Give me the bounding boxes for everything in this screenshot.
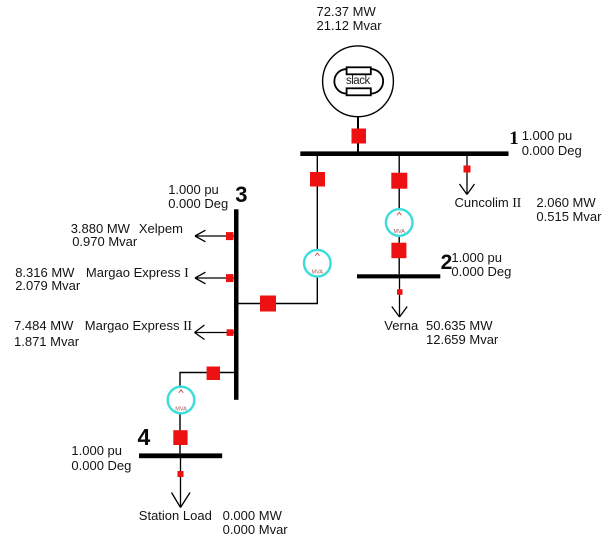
- load name Xelpem: [139, 222, 183, 236]
- load arrow Xelpem: [195, 230, 234, 242]
- load value Margao Express I MW: [15, 266, 74, 280]
- bus 4 number label: [138, 426, 151, 449]
- svg-text:MVA: MVA: [312, 270, 324, 276]
- load name Verna: [384, 319, 418, 333]
- breaker line 3-4 at bus 3: [207, 367, 220, 381]
- load arrow Margao Express I: [195, 272, 234, 284]
- breaker load Cuncolim II: [464, 166, 471, 173]
- svg-text:MVA: MVA: [393, 229, 405, 235]
- load arrow Verna: [392, 278, 407, 317]
- bus 2 number label: [441, 252, 453, 273]
- svg-text:MVA: MVA: [175, 406, 187, 412]
- wire generator to bus 1: [357, 117, 359, 152]
- load arrow Station Load: [172, 458, 191, 508]
- bus 4 voltage label: [71, 444, 131, 473]
- bus 2: [357, 274, 440, 278]
- bus 2 voltage label: [451, 251, 511, 280]
- bus 4: [139, 453, 222, 458]
- breaker load Xelpem: [226, 232, 234, 240]
- breaker line 1-2 at bus 1: [391, 173, 407, 189]
- load name Margao Express I: [86, 266, 189, 281]
- bus 3 number label: [235, 184, 247, 206]
- load value Margao Express I Mvar: [15, 279, 80, 293]
- load name Margao Express II: [85, 319, 192, 334]
- wire bus 3 to bus 4 (line 3-4): [180, 373, 239, 454]
- breaker load Margao Express II: [227, 329, 234, 336]
- load arrow Cuncolim II: [460, 156, 475, 195]
- load value Xelpem MW: [71, 222, 130, 236]
- breaker line 1-3 at bus 1: [310, 172, 325, 187]
- MVA pie transformer line 1-2: [386, 209, 413, 236]
- breaker line 1-3 at bus 3: [260, 296, 276, 312]
- MVA pie transformer line 1-3: [304, 250, 331, 277]
- generator output label 72.37 MW 21.12 Mvar: [317, 5, 382, 34]
- bus 1 number label: [509, 129, 519, 148]
- wire bus 1 to bus 3 (line 1-3): [239, 156, 318, 304]
- wire bus 1 to bus 2 (line 1-2): [398, 156, 400, 274]
- bus 1 voltage label: [522, 129, 582, 158]
- breaker load Margao Express I: [226, 274, 234, 282]
- load value Station Load: [223, 509, 288, 538]
- generator slack text: [346, 76, 370, 88]
- load arrow Margao Express II: [195, 325, 235, 340]
- bus 3 voltage label: [168, 183, 228, 212]
- load name Station Load: [139, 509, 212, 523]
- load value Margao Express II MW: [14, 319, 73, 333]
- load value Xelpem Mvar: [72, 235, 137, 249]
- bus 1: [300, 151, 508, 156]
- breaker load Station Load: [178, 471, 184, 477]
- load name Cuncolim II: [455, 196, 522, 211]
- load value Verna: [426, 319, 498, 348]
- breaker generator: [352, 129, 367, 144]
- breaker load Verna: [397, 289, 403, 295]
- load value Cuncolim II: [536, 196, 601, 225]
- breaker line 1-2 at bus 2: [391, 243, 406, 259]
- MVA pie transformer line 3-4: [168, 387, 195, 414]
- generator G1 slack: [323, 46, 394, 117]
- breaker line 3-4 at bus 4: [173, 430, 187, 445]
- bus 3: [234, 209, 239, 399]
- load value Margao Express II Mvar: [14, 335, 79, 349]
